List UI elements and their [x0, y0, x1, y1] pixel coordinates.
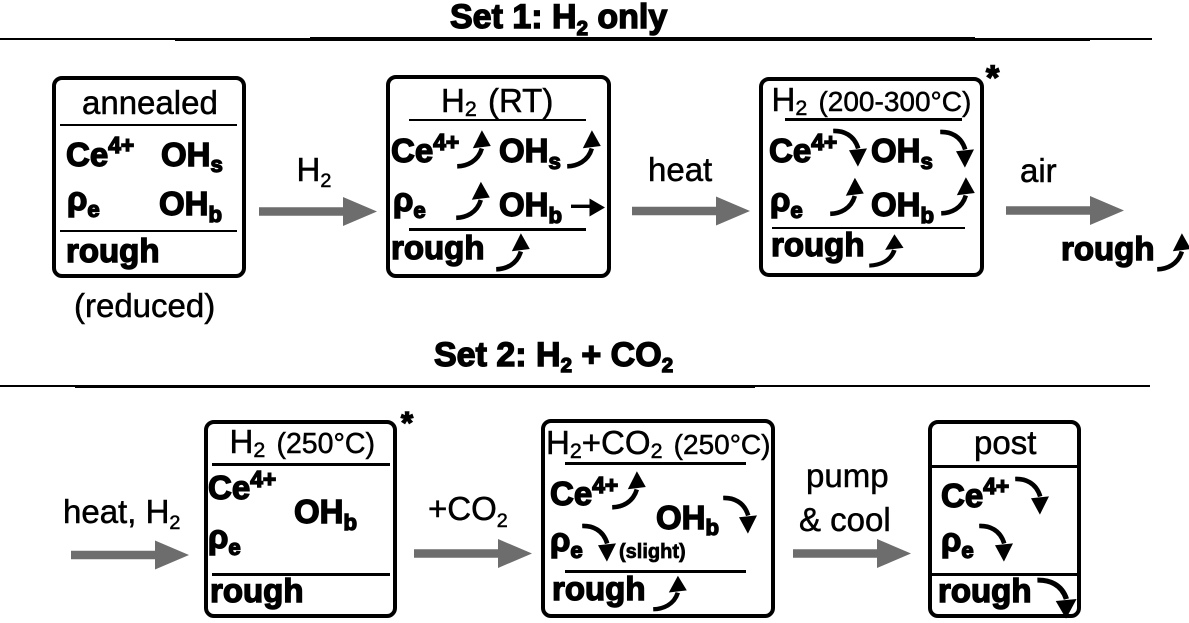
down arrow box5 OHb	[723, 498, 757, 534]
asterisk box3	[986, 61, 999, 95]
separator box4 top	[212, 463, 390, 466]
title Set 1	[450, 0, 667, 34]
label (reduced)	[74, 289, 215, 322]
rough box5	[552, 572, 645, 605]
box annealed	[52, 76, 246, 278]
rough box3	[771, 228, 864, 261]
separator box3 top	[785, 118, 962, 121]
header H2 (RT)	[441, 84, 553, 117]
separator box4 bottom	[212, 573, 390, 576]
rule under Set 1	[0, 38, 175, 40]
down arrow box5 rho	[582, 526, 616, 562]
rho-e box4	[208, 520, 241, 553]
right arrow box2 OHb	[571, 199, 605, 217]
up arrow box3 rho	[830, 178, 864, 214]
down arrow box3 OHs	[940, 132, 974, 168]
OHs box2	[499, 134, 561, 167]
gray arrow pump cool	[793, 539, 911, 568]
Ce4+ box6	[941, 479, 1009, 512]
up arrow box5 rough	[653, 576, 687, 609]
Ce4+ box3	[769, 134, 837, 167]
rough box4	[210, 574, 303, 607]
rough box2	[391, 231, 484, 264]
up arrow box5 Ce	[612, 471, 646, 507]
up arrow box2 rough	[496, 233, 530, 269]
label pump over arrow 6	[806, 459, 889, 492]
Ce4+ box1	[66, 138, 134, 171]
Ce4+ box4	[208, 471, 276, 504]
rho-e box2	[393, 183, 426, 216]
down arrow box6 rho	[979, 526, 1013, 562]
up arrow box3 OHb	[941, 177, 975, 213]
separator box6 bottom	[932, 573, 1077, 576]
box H2 (200-300C)	[759, 77, 984, 277]
up arrow box2 Ce	[457, 130, 491, 166]
label heat over arrow 2	[648, 153, 712, 186]
separator box2 top	[409, 119, 586, 122]
down arrow box6 Ce	[1015, 479, 1049, 515]
gray arrow heat H2	[71, 541, 189, 570]
box H2 (RT)	[386, 75, 611, 278]
rough box1	[66, 234, 159, 267]
header H2 (200-300C)	[772, 83, 972, 116]
label heat, H2 over arrow 4	[63, 495, 180, 528]
header H2+CO2 (250C)	[546, 426, 770, 459]
label air over arrow 3	[1020, 154, 1057, 187]
box post	[928, 420, 1081, 618]
separator box5 top	[565, 462, 746, 465]
rho-e box5	[550, 523, 583, 556]
OHb box5	[656, 501, 719, 534]
separator box1 top	[60, 124, 237, 127]
asterisk box4	[401, 407, 413, 438]
Ce4+ box2	[391, 134, 459, 167]
separator box3 bottom	[772, 227, 965, 230]
gray arrow H2	[259, 197, 377, 226]
OHs box3	[871, 134, 933, 167]
separator box1 bottom	[60, 230, 237, 233]
up arrow box2 OHs	[567, 130, 601, 166]
down arrow box3 Ce	[833, 131, 867, 167]
separator box2 bottom	[409, 228, 586, 231]
title Set 2	[434, 338, 673, 372]
OHb box2	[499, 188, 562, 221]
gray arrow heat	[632, 197, 750, 226]
box H2+CO2 (250C)	[541, 419, 775, 618]
OHb box3	[871, 188, 934, 221]
label +CO2 over arrow 5	[428, 492, 508, 525]
rho-e box3	[770, 183, 803, 216]
OHb box1	[159, 187, 222, 220]
header annealed	[82, 86, 218, 119]
up arrow box3 rough	[869, 234, 903, 265]
label H2 over arrow 1	[297, 153, 332, 186]
label (slight)	[619, 542, 686, 562]
box H2 (250C)	[204, 420, 397, 618]
up arrow rough final	[1157, 233, 1189, 269]
header H2 (250C)	[230, 425, 375, 459]
rough box6	[938, 574, 1031, 607]
separator box5 bottom	[565, 570, 746, 573]
up arrow box2 row2	[456, 182, 490, 218]
separator box6 top	[932, 465, 1077, 468]
down arrow box6 rough	[1037, 580, 1076, 618]
gray arrow air	[1006, 196, 1124, 225]
header post	[974, 426, 1036, 459]
OHb box4	[294, 495, 357, 528]
rho-e box6	[941, 523, 974, 556]
gray arrow +CO2	[414, 539, 532, 568]
rough final row1	[1061, 232, 1154, 265]
Ce4+ box5	[550, 477, 618, 510]
rho-e box1	[67, 182, 100, 215]
rule under Set 2	[0, 385, 75, 387]
OHs box1	[161, 138, 223, 171]
label and cool over arrow 6	[799, 503, 891, 536]
